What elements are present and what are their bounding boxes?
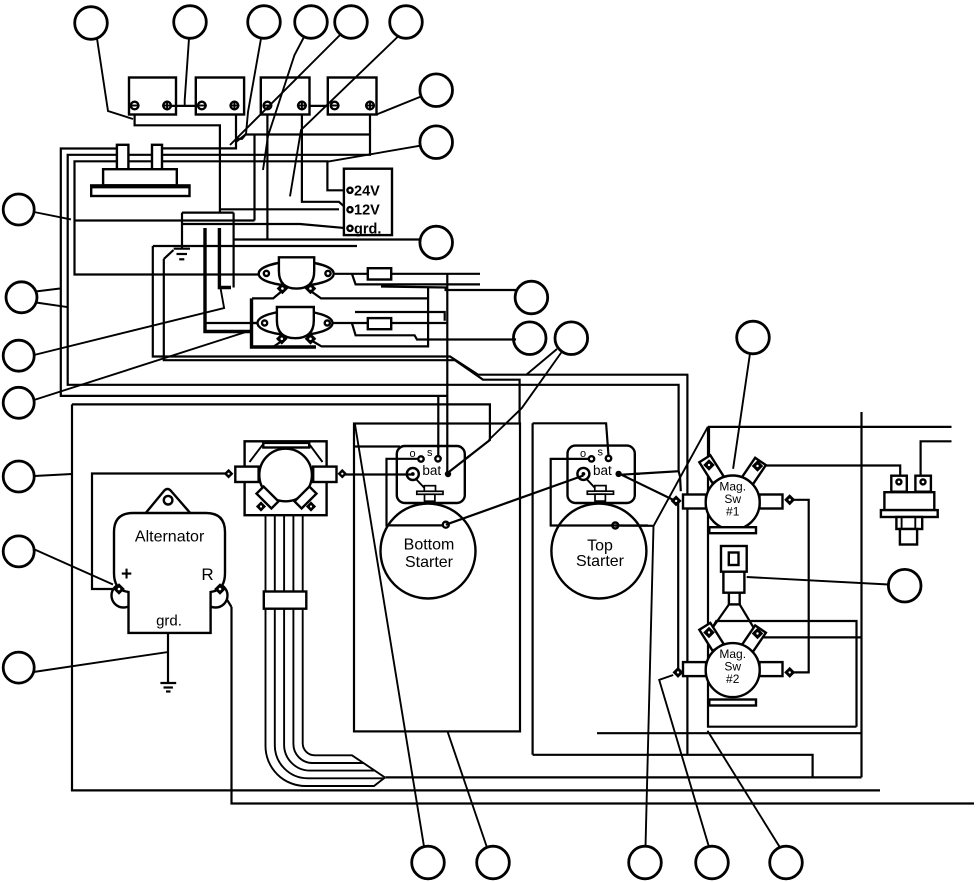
wire bus line 2 from battery4 plus — [68, 112, 679, 475]
svg-text:Alternator: Alternator — [135, 529, 205, 546]
pin 12V — [347, 207, 352, 212]
callout circle top 2 — [174, 6, 207, 39]
wire bottom long — [232, 607, 975, 804]
resistor R1 — [368, 268, 391, 279]
leader left 5 — [34, 474, 72, 476]
leader bottom 3 — [646, 427, 708, 847]
callout circle left 2 — [6, 282, 37, 313]
battery shunt slab upper — [103, 169, 177, 185]
wire bus line 1 — [61, 149, 447, 396]
wire grd pin — [182, 224, 348, 228]
leader top 1 — [97, 39, 133, 120]
callout circle bottom 2 — [477, 846, 510, 879]
starter solenoid bottom box — [397, 446, 465, 503]
bottom starter motor — [381, 504, 476, 599]
leader right A — [377, 97, 422, 115]
wire bundle from distributor — [266, 515, 386, 786]
leader left 3 — [34, 288, 224, 355]
pin grd — [347, 226, 352, 231]
callout circle right E — [513, 322, 546, 355]
wire battery2 plus to bus post — [162, 110, 236, 148]
svg-text:Bottom: Bottom — [404, 537, 455, 554]
wire solenoid1 coil right loop — [312, 292, 428, 299]
wire rail P1a to top box right edge — [153, 246, 689, 755]
leader top 3 — [236, 39, 261, 143]
wire alternator R to bottom — [221, 590, 232, 607]
wire B1 plus to B2 minus — [171, 105, 200, 107]
wire s drop overlay — [437, 446, 439, 456]
leader left 2a — [36, 289, 61, 292]
distributor left terminal — [224, 467, 259, 482]
leader bottom 4 — [659, 675, 709, 847]
battery shunt slab lower — [91, 185, 189, 196]
leader top 2 — [185, 39, 189, 106]
wire mid vertical right — [446, 274, 448, 473]
callout circle right C — [420, 226, 453, 259]
leader mag top — [733, 354, 750, 469]
wire thick loop around solenoid2 — [252, 298, 317, 347]
callout circle right F — [555, 322, 588, 355]
svg-text:s: s — [598, 447, 604, 459]
wire rail P1b to bottom box corner — [164, 259, 520, 423]
wire mag2 top left to right vertical — [711, 621, 857, 727]
svg-text:grd.: grd. — [156, 613, 182, 630]
callout circle top 5 — [335, 6, 368, 39]
leader bottom 1 — [355, 425, 424, 847]
ground symbol top — [174, 213, 190, 260]
callout circle left 3 — [3, 340, 34, 371]
leader right B — [327, 146, 420, 162]
distributor switch block — [245, 441, 327, 515]
callout circle bottom 3 — [629, 846, 662, 879]
wire branch battery2 to center vertical — [236, 135, 370, 139]
alternator body — [112, 489, 228, 633]
wire enclosure top edge — [153, 245, 357, 247]
wire bottom solenoid o loop — [387, 459, 443, 526]
leader F to rail A — [526, 349, 557, 375]
magnetic switch MS1 — [671, 455, 796, 533]
wire battery3 plus to 12V pin — [302, 110, 348, 210]
callout circle left 6 — [3, 536, 34, 567]
top starter motor — [551, 504, 646, 599]
wire pressure switch tab2 line — [921, 441, 952, 475]
wire L4 diagonal overlay — [450, 456, 471, 472]
wire s drop bottom solenoid — [437, 397, 439, 449]
starter solenoid top box — [568, 446, 635, 503]
wire bat feed overlay — [621, 474, 640, 475]
wire solenoid2 right to resistor2 — [333, 322, 367, 324]
leader right D tail — [514, 290, 517, 295]
relay solenoid S2 — [258, 307, 333, 345]
wire rail diagonal into ground — [164, 250, 174, 259]
wire mid vertical overlay — [446, 446, 448, 473]
leader bottom 5 — [708, 731, 781, 848]
wire alternator plus loop to distributor — [92, 474, 230, 590]
leader top 6 — [290, 37, 398, 197]
voltage tap box — [344, 169, 392, 235]
wire mag1 right loop down to mag2 — [791, 500, 809, 673]
wire top rail right — [708, 426, 952, 428]
wire bundle tail single — [385, 776, 861, 778]
wire bus line 3 to 24V box — [75, 161, 348, 274]
leader top 5 — [230, 34, 342, 146]
wire bottom starter pin diagonal to top solenoid — [446, 476, 584, 525]
wire mag1 to pressure tab1 — [764, 466, 900, 476]
wire distributor right to bottom solenoid — [344, 473, 412, 475]
wire solenoid2 area left entry — [205, 322, 262, 324]
pin 24V — [347, 188, 352, 193]
svg-text:#1: #1 — [726, 505, 740, 519]
leader left 6 — [34, 549, 114, 585]
wire vertical top solenoid s — [533, 423, 609, 455]
terminal alternator R — [214, 583, 226, 595]
ground symbol alternator — [160, 633, 176, 692]
wire B3 plus to B4 minus — [306, 105, 335, 107]
leader top 4 — [263, 37, 304, 170]
callout circle top 6 — [390, 6, 423, 39]
leader left 1 — [34, 212, 71, 219]
svg-text:bat: bat — [422, 463, 441, 478]
leader bottom 2 — [448, 731, 488, 847]
battery B1 — [129, 78, 176, 115]
wire thick cable 2 — [219, 228, 231, 288]
wire resistor1 right out — [391, 273, 480, 275]
battery shunt posts — [117, 145, 162, 169]
pressure switch — [881, 476, 938, 545]
wire mag1 top bolt up — [708, 428, 710, 463]
svg-text:12V: 12V — [354, 203, 380, 219]
wire leader row to right circle3 — [234, 240, 421, 242]
wire resistor2 jog down — [352, 323, 516, 340]
leader right E — [513, 338, 516, 341]
wire bottom solenoid top-left link — [354, 445, 400, 447]
svg-text:+: + — [121, 564, 132, 585]
svg-text:#2: #2 — [726, 672, 740, 686]
rect bottom starter box — [354, 424, 520, 732]
callout circle top 1 — [75, 7, 108, 40]
callout circle top 3 — [248, 6, 281, 39]
callout circle right B — [420, 126, 453, 159]
leader left 2b — [36, 303, 68, 308]
wire inner link — [355, 312, 445, 321]
wire solenoid1 right to resistor1 — [335, 273, 368, 275]
wire center vertical down — [233, 213, 235, 288]
callout circle bottom 4 — [696, 846, 729, 879]
callout circle top 4 — [295, 6, 328, 39]
wire mag2 top right out — [758, 636, 862, 638]
battery B4 — [328, 78, 377, 115]
wire top bat to mag1 diagonal — [621, 475, 674, 501]
wire to circle4 right — [381, 287, 516, 296]
wire solenoid2 left — [252, 322, 258, 324]
wire upper cross horizontal — [75, 219, 255, 221]
leader left 7 — [34, 652, 169, 672]
callout circle left 5 — [3, 461, 34, 492]
wire resistor2 right out — [391, 322, 447, 324]
callout circle bottom 1 — [412, 846, 445, 879]
distributor right terminal — [313, 467, 347, 482]
wire mag1 left to mag2 left vertical — [677, 503, 679, 668]
callout circle mag mid — [888, 569, 921, 602]
resistor R2 — [368, 318, 391, 329]
callout circle bottom 5 — [770, 846, 803, 879]
big rectangle outer — [72, 404, 880, 790]
terminal alternator plus — [113, 583, 125, 595]
wire bat stub to terminal — [679, 471, 681, 491]
svg-text:bat: bat — [593, 463, 612, 478]
wire resistor1 jog down — [352, 274, 480, 285]
wire solenoid2 coil left — [273, 341, 282, 347]
callout circle left 7 — [3, 652, 34, 683]
big rectangle right edge — [860, 412, 862, 777]
wire vertical x254 — [253, 135, 255, 221]
magnetic switch MS2 — [672, 623, 795, 706]
wire 12V horizontal from left — [220, 208, 339, 210]
rect top starter box bottom edge — [533, 755, 813, 778]
callout circle right A — [420, 74, 453, 107]
wire battery3 minus down — [266, 110, 268, 240]
svg-text:Starter: Starter — [405, 554, 454, 571]
battery B2 — [196, 78, 244, 115]
wire mag box mid horizontal — [597, 732, 863, 734]
svg-text:R: R — [201, 565, 213, 584]
wire bundle clamp — [264, 592, 307, 609]
callout circle mag top — [737, 321, 770, 354]
relay solenoid S1 — [259, 257, 334, 294]
actuator link between switches — [711, 546, 755, 630]
wire loop right vertical — [312, 288, 429, 346]
wire solenoid1 coil left loop — [252, 291, 282, 298]
svg-text:s: s — [427, 447, 433, 459]
wire thick battery cable — [205, 228, 252, 332]
wire battery1 minus down — [135, 110, 220, 213]
svg-text:24V: 24V — [354, 183, 380, 199]
rect top starter box left edge — [531, 423, 533, 755]
wire ground stem top to center — [182, 212, 234, 214]
callout circle right D — [515, 281, 548, 314]
callout circle left 1 — [3, 194, 34, 225]
svg-text:Starter: Starter — [576, 553, 625, 570]
battery B3 — [261, 78, 310, 115]
leader F to bat wire — [489, 352, 562, 441]
svg-text:Top: Top — [587, 538, 613, 555]
rect mag switch inner box — [708, 427, 857, 727]
leader left 4 — [34, 330, 252, 400]
callout circle left 4 — [3, 387, 34, 418]
wire rail L4 — [72, 404, 490, 471]
wire top solenoid o loop — [551, 459, 648, 526]
wire top starter pin — [615, 524, 653, 526]
svg-text:grd.: grd. — [354, 221, 381, 237]
leader mag mid — [747, 577, 889, 585]
leader right C — [419, 240, 421, 242]
